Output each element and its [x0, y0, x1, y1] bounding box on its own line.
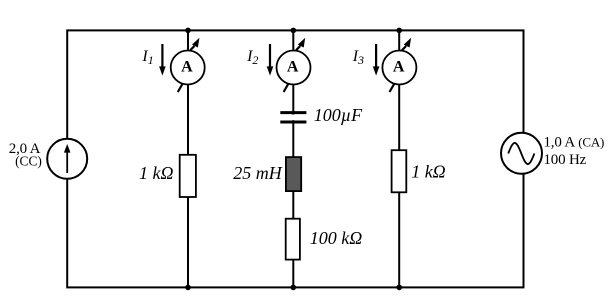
svg-text:I2: I2: [246, 48, 258, 67]
svg-text:A: A: [287, 58, 299, 75]
svg-text:(CC): (CC): [15, 154, 42, 169]
svg-text:I1: I1: [141, 48, 153, 67]
svg-text:25 mH: 25 mH: [233, 163, 282, 183]
svg-text:100 kΩ: 100 kΩ: [310, 228, 363, 248]
svg-text:100µF: 100µF: [314, 105, 363, 125]
svg-text:1 kΩ: 1 kΩ: [139, 163, 174, 183]
svg-text:100 Hz: 100 Hz: [544, 152, 587, 168]
svg-text:1,0 A (CA): 1,0 A (CA): [544, 135, 605, 151]
svg-text:A: A: [393, 58, 405, 75]
svg-text:I3: I3: [352, 48, 364, 67]
svg-text:A: A: [181, 58, 193, 75]
svg-text:1 kΩ: 1 kΩ: [411, 162, 446, 182]
